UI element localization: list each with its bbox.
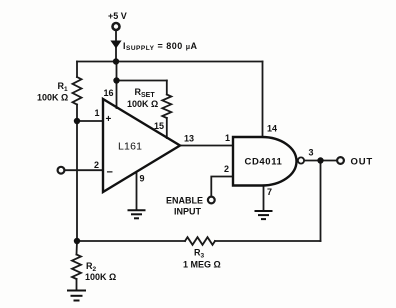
svg-text:1: 1 [95,108,100,118]
svg-text:15: 15 [154,121,164,131]
svg-text:14: 14 [267,124,277,134]
svg-text:−: − [107,167,113,179]
svg-text:100K Ω: 100K Ω [37,93,68,103]
svg-text:1: 1 [225,133,230,143]
svg-text:100K Ω: 100K Ω [127,99,158,109]
svg-text:1 MEG Ω: 1 MEG Ω [183,260,221,270]
svg-text:+: + [106,114,112,125]
svg-text:ENABLE: ENABLE [166,196,203,206]
svg-text:L161: L161 [118,141,142,153]
svg-text:100K Ω: 100K Ω [85,272,116,282]
svg-text:16: 16 [104,88,114,98]
svg-text:INPUT: INPUT [174,207,202,217]
svg-text:3: 3 [309,148,314,158]
svg-text:2: 2 [224,164,229,174]
svg-text:13: 13 [184,134,194,144]
svg-text:CD4011: CD4011 [245,157,283,168]
svg-text:+5 V: +5 V [108,11,127,21]
svg-text:9: 9 [140,174,145,184]
svg-text:2: 2 [94,160,99,170]
svg-text:7: 7 [267,187,272,197]
svg-text:OUT: OUT [351,157,373,168]
